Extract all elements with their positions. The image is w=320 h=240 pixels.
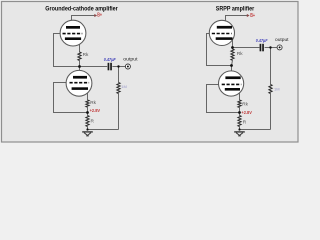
node A2 (right lower plate) bbox=[230, 64, 233, 67]
wire: left upper cathode lead bbox=[79, 39, 81, 53]
node A (left output tap) bbox=[78, 65, 81, 68]
wire: left load resistor top lead bbox=[118, 67, 120, 83]
wire: right lower plate lead bbox=[231, 66, 233, 77]
svg-text:Rk: Rk bbox=[237, 51, 243, 56]
B+ arrow (left) bbox=[94, 14, 97, 17]
resistor Rk1 (left upper cathode) bbox=[78, 52, 81, 61]
triode V2 (left lower) bbox=[66, 70, 92, 96]
wire: right load resistor bottom lead bbox=[270, 94, 272, 130]
svg-text:B+: B+ bbox=[97, 12, 102, 18]
svg-text:Rk: Rk bbox=[242, 101, 248, 106]
svg-text:SRPP amplifier: SRPP amplifier bbox=[216, 5, 255, 12]
svg-text:Rk: Rk bbox=[83, 52, 89, 57]
svg-text:B+: B+ bbox=[250, 13, 255, 19]
wire: left upper grid lead bbox=[54, 34, 80, 67]
wire: left lower cathode lead bbox=[87, 89, 89, 100]
wire: right lower cathode lead bbox=[239, 90, 241, 100]
resistor Rk4 (right lower cathode) bbox=[238, 100, 241, 108]
wire: left lower plate lead bbox=[79, 67, 81, 77]
B+ arrow (right) bbox=[247, 14, 250, 17]
node load tee left bbox=[117, 65, 119, 67]
svg-text:+2.8V: +2.8V bbox=[90, 108, 101, 113]
svg-text:output: output bbox=[123, 57, 138, 62]
border frame bbox=[2, 2, 299, 143]
wire: Rk2 bottom to node B bbox=[87, 107, 89, 112]
node ground tee left bbox=[86, 128, 88, 130]
wire: right plate lead to B+ rail bbox=[226, 16, 248, 27]
output terminal (right) bbox=[277, 45, 282, 50]
wire: left plate lead to B+ rail bbox=[72, 16, 95, 27]
capacitor C2 0.47uF (right) bbox=[260, 44, 264, 52]
wire: right upper grid lead bbox=[207, 34, 232, 66]
resistor Rk2 (left lower cathode) bbox=[86, 100, 89, 107]
wire: right lower grid lead bbox=[207, 85, 240, 113]
node ground tee right bbox=[238, 128, 240, 130]
svg-text:Grounded-cathode amplifier: Grounded-cathode amplifier bbox=[45, 5, 118, 12]
svg-text:1M: 1M bbox=[274, 87, 280, 92]
resistor R (right bottom) bbox=[238, 116, 241, 127]
output terminal (left) bbox=[125, 64, 130, 69]
ground (right) bbox=[234, 132, 245, 136]
triode V4 (right lower) bbox=[219, 71, 244, 96]
wire: node B to resistor R bbox=[87, 113, 89, 116]
wire: right R bottom to ground bbox=[239, 127, 241, 131]
capacitor C1 0.47uF (left) bbox=[108, 63, 112, 71]
wire: Rk1 bottom to node A bbox=[79, 61, 81, 67]
resistor R (left bottom) bbox=[86, 116, 89, 127]
wire: Rk3 bottom to node A2 bbox=[232, 60, 233, 65]
wire: cap to output terminal bbox=[112, 66, 125, 68]
node B2 (right grid bias) bbox=[238, 111, 241, 114]
svg-text:output: output bbox=[275, 37, 289, 42]
resistor Rk3 (right upper cathode) bbox=[231, 49, 234, 60]
triode V1 (left upper) bbox=[60, 20, 86, 46]
node load tee right bbox=[269, 46, 271, 48]
svg-text:0.47µF: 0.47µF bbox=[256, 38, 268, 43]
node output tap right bbox=[231, 46, 234, 49]
wire: right upper cathode lead to output node bbox=[232, 39, 234, 50]
wire: cap to right output terminal bbox=[265, 47, 277, 49]
wire: node B2 to resistor R bbox=[239, 113, 241, 116]
wire: node A to coupling cap bbox=[80, 66, 108, 68]
svg-text:1M: 1M bbox=[121, 84, 127, 89]
wire: right bottom rail bbox=[240, 129, 271, 131]
svg-text:Rk: Rk bbox=[90, 100, 96, 105]
wire: R bottom to ground bbox=[87, 127, 89, 131]
junction dots bbox=[78, 46, 272, 130]
triode V3 (right upper) bbox=[209, 20, 234, 45]
wire: left lower grid lead bbox=[54, 83, 88, 113]
ground (left) bbox=[82, 132, 93, 136]
wire: left load resistor bottom lead bbox=[118, 94, 120, 130]
resistor Rload left bbox=[117, 83, 120, 94]
wire: Rk4 bottom to node B2 bbox=[239, 108, 241, 113]
wire: output node to coupling cap bbox=[233, 47, 260, 49]
wire: left bottom rail bbox=[88, 129, 119, 131]
resistor Rload right bbox=[269, 85, 272, 94]
svg-text:+2.8V: +2.8V bbox=[241, 110, 252, 115]
wire: right load resistor top lead bbox=[270, 48, 272, 85]
node B (left grid bias) bbox=[86, 111, 89, 114]
svg-text:0.47µF: 0.47µF bbox=[104, 57, 116, 62]
